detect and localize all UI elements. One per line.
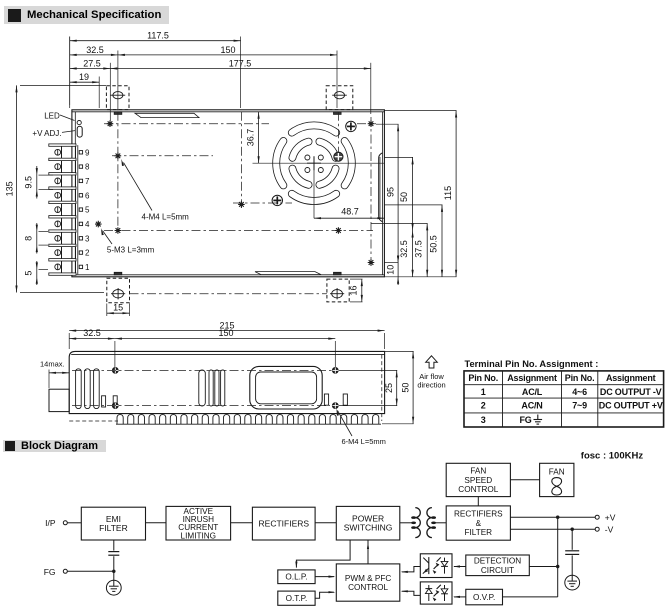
terminal pin 8 [79, 165, 82, 168]
dimension 5 [39, 268, 49, 270]
svg-text:8: 8 [85, 163, 90, 172]
svg-text:9: 9 [85, 148, 90, 157]
svg-text:48.7: 48.7 [341, 207, 359, 217]
side view top flange line [71, 354, 384, 356]
mounting bracket bottom-left [107, 278, 130, 303]
side centerline upper [72, 369, 334, 371]
OVP block [466, 589, 503, 605]
svg-text:direction: direction [417, 381, 445, 390]
centerline vertical mid [240, 112, 242, 208]
centerline vertical rivets right [370, 117, 372, 266]
svg-text:+V: +V [605, 512, 616, 522]
svg-text:FILTER: FILTER [99, 523, 128, 533]
dimension 36.7 [258, 112, 260, 163]
terminal separator plate [49, 187, 76, 189]
terminal screw 8 [55, 164, 61, 170]
rivet top-left [107, 120, 114, 127]
IEC inlet inner [256, 372, 317, 404]
terminal screw 3 [55, 235, 61, 241]
wire fan speed control to rectifiers filter [477, 497, 479, 506]
feedback wire power switching [367, 540, 369, 564]
phillips screw on fan right [334, 152, 343, 161]
terminal separator plate [49, 158, 76, 160]
svg-text:2: 2 [85, 249, 90, 258]
svg-text:-V: -V [605, 524, 614, 534]
table FG earth symbol [537, 415, 539, 420]
fan horizontal centerline [253, 162, 385, 164]
M4 screw hole upper-left [115, 153, 122, 160]
svg-text:135: 135 [5, 181, 15, 196]
dimension 215 [68, 333, 70, 349]
M3 screw hole [95, 221, 102, 228]
section header: Mechanical Specification [4, 6, 169, 24]
dimension 32.5 right [412, 231, 414, 277]
svg-text:14max.: 14max. [40, 360, 65, 369]
svg-text:27.5: 27.5 [83, 59, 101, 69]
dimension 50 right [412, 157, 414, 230]
terminal pin 5 [79, 208, 82, 211]
M4 screw hole lower-right [335, 227, 342, 234]
svg-text:AC/L: AC/L [522, 387, 543, 397]
svg-text:5: 5 [85, 206, 90, 215]
phillips screw lower-left of fan [272, 195, 282, 205]
transformer T1 [415, 508, 420, 538]
terminal screw 6 [55, 192, 61, 198]
terminal pin table grid [464, 371, 664, 427]
side vent slots left [76, 369, 82, 409]
photocoupler U2 [420, 554, 452, 578]
svg-text:AC/N: AC/N [521, 400, 542, 410]
-V output line [510, 528, 595, 530]
svg-text:CONTROL: CONTROL [458, 485, 498, 494]
terminal separator plate [49, 244, 76, 246]
centerline horizontal rivet row top [104, 123, 269, 125]
terminal screw 4 [55, 221, 61, 227]
dimension 135 [20, 84, 106, 86]
wire detection to opto1 [454, 566, 466, 568]
Y capacitor C2 [113, 540, 115, 551]
svg-text:SPEED: SPEED [464, 476, 492, 485]
side view hidden bottom line [69, 420, 118, 422]
OTP block [278, 591, 315, 605]
terminal pin 1 [79, 265, 82, 268]
dimension 150 top [336, 51, 338, 109]
EMI filter U1 [81, 507, 145, 540]
side small hole right of inlet [324, 394, 328, 405]
svg-text:32.5: 32.5 [83, 328, 101, 338]
LED indicator [77, 121, 81, 125]
svg-text:DC OUTPUT +V: DC OUTPUT +V [599, 400, 663, 410]
terminal screw 7 [55, 178, 61, 184]
svg-text:8: 8 [24, 236, 34, 241]
side vent slots middle [199, 370, 206, 406]
dimension 177.5 [370, 63, 372, 114]
PWM and PFC control block [336, 564, 400, 601]
rivet center [238, 201, 245, 208]
FG earth ground [106, 580, 121, 595]
wire rectifiers to power switching [315, 522, 336, 524]
+V output line [510, 516, 595, 518]
centerline vertical right screws [337, 112, 339, 153]
svg-text:117.5: 117.5 [147, 31, 169, 41]
svg-text:Assignment: Assignment [507, 373, 557, 383]
dimension 37.5 [426, 223, 428, 276]
dimension 16 [350, 278, 363, 280]
dimension 15 [106, 304, 108, 317]
terminal pin 6 [79, 194, 82, 197]
svg-text:6-M4 L=5mm: 6-M4 L=5mm [342, 437, 386, 446]
dimension 19 [70, 81, 100, 83]
chassis inner wall right [382, 112, 384, 275]
terminal separator plate [49, 173, 76, 175]
output ground [565, 575, 580, 590]
wire EMI to inrush [146, 522, 167, 524]
wire FG to ground [67, 570, 114, 572]
svg-text:DC OUTPUT -V: DC OUTPUT -V [600, 387, 662, 397]
svg-text:115: 115 [443, 186, 453, 200]
svg-text:DETECTION: DETECTION [474, 557, 521, 566]
svg-text:36.7: 36.7 [246, 129, 256, 147]
power switching block [336, 506, 400, 540]
terminal pin 7 [79, 179, 82, 182]
centerline horizontal M4 lower [104, 230, 373, 232]
wire detection to junction [529, 566, 557, 568]
side small holes left [102, 396, 106, 407]
terminal pin 2 [79, 251, 82, 254]
svg-text:Pin No.: Pin No. [468, 373, 498, 383]
mounting bracket top-right [326, 86, 353, 110]
dimension 32.5 top [117, 51, 119, 111]
side view hidden right edge [381, 355, 383, 421]
air flow arrow [426, 356, 438, 368]
dimension 50.5 [441, 205, 443, 277]
wire inrush to rectifiers [231, 522, 253, 524]
terminal separator plate [49, 230, 76, 232]
phillips screw top-right [346, 121, 356, 131]
chassis tab top-left [114, 112, 122, 115]
detection circuit block [466, 555, 530, 576]
chassis tab bottom-right [334, 272, 342, 275]
svg-text:RECTIFIERS: RECTIFIERS [454, 510, 503, 519]
svg-text:3: 3 [85, 234, 90, 243]
svg-text:7: 7 [85, 177, 90, 186]
dimension 8 [39, 231, 49, 233]
svg-text:3: 3 [481, 415, 486, 425]
side centerline lower [72, 405, 330, 407]
svg-text:Assignment: Assignment [606, 373, 656, 383]
svg-text:4: 4 [85, 220, 90, 229]
svg-text:150: 150 [218, 328, 233, 338]
rivet bottom-right [368, 259, 375, 266]
chassis inner wall left [74, 112, 76, 275]
M4 screw hole lower-left [115, 227, 122, 234]
fan center cross [307, 162, 321, 164]
svg-text:CIRCUIT: CIRCUIT [481, 566, 514, 575]
svg-text:7~9: 7~9 [572, 400, 587, 410]
fan vertical centerline [313, 163, 315, 218]
chassis tab top-right [334, 112, 342, 115]
svg-text:32.5: 32.5 [86, 45, 104, 55]
dimension 9.5 [39, 174, 54, 176]
svg-text:19: 19 [79, 72, 89, 82]
junction detection [556, 565, 559, 568]
svg-text:I/P: I/P [45, 518, 56, 528]
terminal block face line [77, 145, 79, 274]
svg-text:Pin No.: Pin No. [565, 373, 595, 383]
+V ADJ potentiometer [77, 126, 82, 137]
extension lines right [384, 110, 456, 112]
rectifiers and filter block [446, 506, 510, 540]
OLP block [278, 570, 315, 584]
top view chassis outline [72, 110, 385, 277]
svg-text:6: 6 [85, 191, 90, 200]
svg-text:PWM & PFC: PWM & PFC [345, 574, 391, 583]
photocoupler U3 [420, 582, 452, 604]
svg-text:50: 50 [401, 383, 411, 393]
terminal screw 5 [55, 207, 61, 213]
side view outline [69, 351, 384, 413]
svg-text:25: 25 [384, 383, 394, 393]
rectifiers block [252, 507, 315, 540]
terminal block protrusion side [49, 389, 69, 411]
svg-text:&: & [476, 519, 482, 528]
svg-text:4-M4 L=5mm: 4-M4 L=5mm [142, 213, 190, 222]
side screws [112, 368, 118, 374]
svg-text:FILTER: FILTER [464, 528, 492, 537]
terminal separator plate [49, 201, 76, 203]
svg-text:9.5: 9.5 [24, 176, 34, 189]
svg-text:+V ADJ.: +V ADJ. [32, 129, 61, 138]
svg-text:FAN: FAN [470, 467, 486, 476]
dimension 10 [397, 263, 399, 286]
svg-text:1: 1 [85, 263, 90, 272]
dimension 48.7 [314, 217, 384, 219]
svg-text:SWITCHING: SWITCHING [344, 523, 393, 533]
svg-text:Terminal Pin No. Assignment :: Terminal Pin No. Assignment : [465, 359, 599, 369]
cooling fins [117, 415, 379, 425]
svg-text:10: 10 [386, 265, 396, 275]
svg-text:50: 50 [399, 192, 409, 202]
svg-text:LIMITING: LIMITING [181, 531, 216, 540]
terminal separator plate [49, 259, 76, 261]
rivet top-right [368, 120, 375, 127]
fan speed control block [446, 463, 510, 496]
svg-text:1: 1 [481, 387, 486, 397]
svg-text:FG: FG [44, 567, 56, 577]
terminal pin 4 [79, 222, 82, 225]
wire transformer to rectifiers filter [433, 522, 446, 524]
mounting bracket bottom-right [327, 279, 349, 302]
wire OLP to PWM [315, 576, 334, 578]
wire fan speed control to fan [510, 479, 539, 481]
terminal pin 9 [79, 151, 82, 154]
right side louver slot [379, 153, 383, 222]
terminal separator plate [49, 144, 76, 146]
centerline bottom brackets [130, 293, 327, 295]
top louver vent lower [255, 272, 321, 275]
dimension 117.5 [69, 37, 71, 109]
svg-text:4~6: 4~6 [572, 387, 587, 397]
dimension 150 side [334, 341, 336, 367]
dimension 95 [397, 124, 399, 262]
mounting bracket top-left [106, 86, 129, 110]
centerline horizontal M4 upper [112, 155, 213, 157]
chassis tab bottom-left [114, 272, 122, 275]
terminal separator plate [49, 273, 76, 275]
active inrush current limiting block [166, 506, 231, 540]
svg-text:177.5: 177.5 [229, 59, 252, 69]
svg-text:150: 150 [220, 45, 235, 55]
junction -V rail [571, 528, 574, 531]
svg-text:LED: LED [44, 111, 60, 120]
svg-text:O.T.P.: O.T.P. [286, 594, 308, 603]
wire opto1 to PWM [402, 567, 421, 572]
terminal screw 9 [55, 149, 61, 155]
terminal screw 1 [55, 264, 61, 270]
wire OVP to opto2 [454, 596, 466, 598]
wire I/P to EMI filter [67, 522, 81, 524]
centerline vertical left [117, 112, 119, 234]
terminal pin 3 [79, 237, 82, 240]
svg-text:5: 5 [24, 271, 34, 276]
sense wire down from +V [557, 517, 559, 597]
svg-text:fosc : 100KHz: fosc : 100KHz [581, 451, 644, 462]
wire opto2 to PWM [402, 591, 421, 595]
svg-text:O.V.P.: O.V.P. [473, 593, 495, 602]
svg-text:16: 16 [349, 285, 359, 295]
svg-text:RECTIFIERS: RECTIFIERS [259, 519, 310, 529]
svg-text:50.5: 50.5 [429, 235, 439, 253]
svg-text:FG: FG [519, 415, 531, 425]
svg-text:37.5: 37.5 [414, 240, 424, 258]
dimension 50 side [385, 350, 414, 352]
section header: Block Diagram [3, 440, 106, 452]
dimension 32.5 side [114, 341, 116, 367]
output capacitor C1 [571, 529, 573, 550]
svg-text:CONTROL: CONTROL [348, 583, 388, 592]
svg-text:95: 95 [386, 187, 396, 197]
junction +V rail [556, 516, 559, 519]
wire to OLP [296, 540, 350, 568]
fan block [540, 463, 574, 496]
terminal block body [62, 145, 76, 274]
fan hub holes [305, 155, 310, 160]
dimension 25 [339, 369, 397, 371]
top louver vent upper [135, 113, 199, 117]
terminal separator plate [49, 216, 76, 218]
IEC inlet outer [250, 366, 322, 409]
wire OTP to PWM [315, 592, 334, 598]
dimension 115 [455, 111, 457, 277]
wire power switching to transformer [400, 522, 414, 524]
junction FG [112, 570, 115, 573]
fan grille outer slots [292, 125, 336, 132]
fan grille inner slots [319, 142, 335, 158]
svg-text:15: 15 [113, 303, 123, 313]
svg-text:2: 2 [481, 400, 486, 410]
svg-text:32.5: 32.5 [399, 240, 409, 258]
terminal screw 2 [55, 250, 61, 256]
dimension 27.5 [109, 63, 111, 121]
svg-text:O.L.P.: O.L.P. [285, 573, 307, 582]
svg-text:FAN: FAN [549, 468, 565, 477]
wire to OVP [503, 596, 558, 598]
svg-text:5-M3 L=3mm: 5-M3 L=3mm [107, 246, 155, 255]
centerline horizontal mid screws [233, 202, 292, 204]
